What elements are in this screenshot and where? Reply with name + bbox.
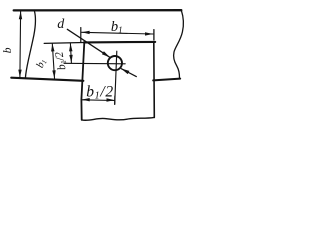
svg-text:d: d	[57, 17, 65, 32]
svg-text:b1: b1	[111, 19, 123, 35]
svg-text:b: b	[2, 47, 14, 53]
svg-text:b1/2: b1/2	[53, 50, 69, 71]
svg-text:b1/2: b1/2	[86, 83, 114, 101]
svg-text:b1: b1	[35, 57, 49, 69]
